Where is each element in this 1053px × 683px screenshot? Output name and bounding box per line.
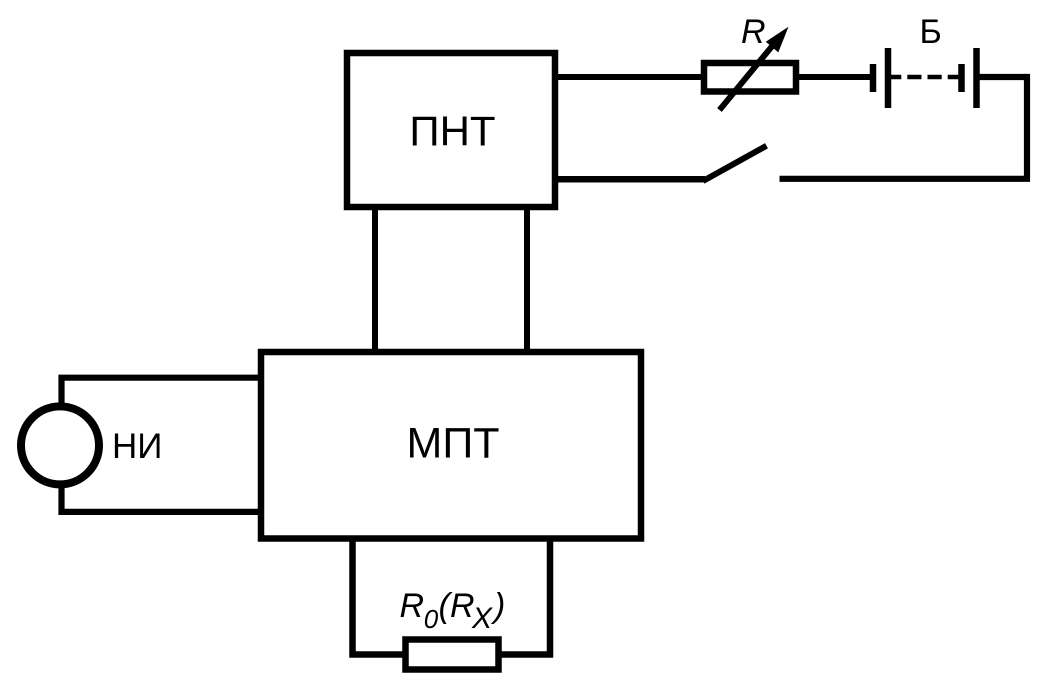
wire resistor R to battery: [799, 74, 871, 80]
block U1 ПНТ: [347, 53, 555, 207]
resistor R (variable): [704, 27, 796, 110]
svg-text:НИ: НИ: [112, 427, 162, 466]
svg-text:R: R: [741, 13, 766, 51]
switch S (open): [555, 146, 767, 181]
wire НИ bottom to МПТ: [62, 486, 262, 512]
svg-text:МПТ: МПТ: [407, 420, 500, 468]
svg-text:ПНТ: ПНТ: [409, 108, 495, 155]
null indicator НИ circle: [21, 406, 99, 484]
wire ПНТ to МПТ left: [372, 207, 378, 352]
wire ПНТ to resistor R: [555, 74, 704, 80]
svg-text:R: R: [450, 587, 475, 625]
svg-text:R: R: [400, 587, 425, 625]
wire МПТ bottom right to R0: [499, 538, 550, 655]
wire battery to right corner and down to switch: [780, 77, 1028, 179]
block U2 МПТ: [261, 352, 641, 539]
svg-text:0: 0: [424, 604, 439, 634]
resistor R0(RX): [406, 640, 499, 670]
svg-text:): ): [490, 587, 505, 625]
wire НИ top to МПТ: [62, 378, 262, 404]
battery Б: [873, 48, 977, 108]
wire ПНТ to МПТ right: [524, 207, 530, 352]
svg-text:Б: Б: [920, 13, 942, 51]
wire МПТ bottom left to R0: [353, 538, 404, 655]
svg-text:X: X: [471, 602, 493, 635]
